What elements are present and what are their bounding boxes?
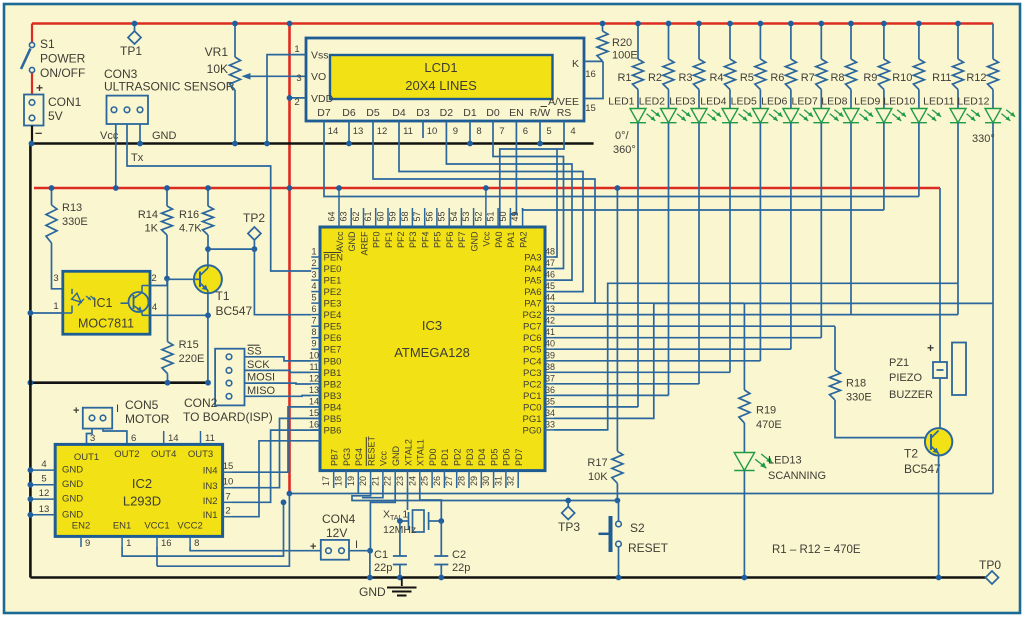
- testpoint TP2: [243, 211, 265, 252]
- svg-text:PC7: PC7: [523, 322, 541, 333]
- svg-text:VO: VO: [311, 71, 326, 83]
- svg-text:8: 8: [194, 538, 199, 549]
- resistor R11: [932, 21, 963, 90]
- wire GND bus middle: [28, 380, 209, 386]
- svg-text:PD2: PD2: [453, 448, 463, 466]
- LCD pin 8 D1: [463, 107, 481, 138]
- IC3 pin 4 PE2: [311, 281, 341, 298]
- svg-text:R2: R2: [648, 72, 662, 84]
- IC3 pin 38 PC3: [523, 362, 555, 379]
- transistor T1 BC547: [167, 265, 253, 318]
- svg-text:MISO: MISO: [247, 385, 276, 397]
- IC3 pin 7 PE5: [311, 316, 341, 333]
- IC3 pin 24 XTAL1: [407, 439, 425, 488]
- svg-text:14: 14: [168, 433, 179, 444]
- svg-text:R/W: R/W: [530, 107, 551, 119]
- LED LED5: [731, 90, 783, 123]
- svg-text:20X4 LINES: 20X4 LINES: [405, 78, 477, 93]
- svg-text:OUT4: OUT4: [151, 449, 176, 460]
- IC3 pin 55 PF6: [437, 208, 455, 248]
- wire LED3 cathode: [698, 123, 700, 384]
- svg-text:+: +: [927, 341, 934, 355]
- svg-text:5: 5: [546, 126, 551, 137]
- svg-text:51: 51: [486, 211, 496, 221]
- wire IN1 to PG3: [232, 441, 320, 517]
- svg-text:PA4: PA4: [524, 264, 541, 275]
- svg-text:BC547: BC547: [216, 304, 253, 318]
- svg-text:R10: R10: [892, 72, 912, 84]
- wire CON5 to IC2 OUT1: [87, 429, 93, 445]
- IC3 pin 57 PF4: [412, 208, 430, 248]
- svg-text:PE3: PE3: [324, 299, 342, 310]
- svg-text:PC0: PC0: [523, 402, 541, 413]
- svg-text:+: +: [73, 405, 79, 417]
- svg-text:Vcc: Vcc: [482, 231, 492, 247]
- svg-text:AVcc: AVcc: [335, 231, 345, 252]
- IC3 pin 44 PA7: [524, 293, 555, 310]
- svg-text:7: 7: [499, 126, 504, 137]
- svg-text:C2: C2: [452, 549, 466, 561]
- svg-text:LED8: LED8: [821, 96, 847, 108]
- IC3 pin 56 PF5: [424, 208, 442, 248]
- IC3 pin 14 PB4: [309, 396, 341, 413]
- svg-text:ATMEGA128: ATMEGA128: [394, 345, 470, 360]
- wire T2 emitter to GND: [936, 454, 942, 581]
- LED LED3: [669, 90, 721, 123]
- svg-text:2: 2: [311, 258, 316, 268]
- IC3 pin 39 PC4: [523, 350, 555, 367]
- IC3 pin 31 PD6: [493, 448, 511, 488]
- svg-text:PD7: PD7: [514, 448, 524, 466]
- svg-text:TO BOARD(ISP): TO BOARD(ISP): [183, 410, 273, 424]
- svg-text:5: 5: [41, 474, 46, 485]
- wire AVcc to rail: [336, 185, 342, 208]
- svg-text:R3: R3: [678, 72, 692, 84]
- wire LCD R/W to GND: [537, 138, 543, 146]
- svg-text:47: 47: [545, 258, 555, 268]
- svg-text:9: 9: [85, 538, 90, 549]
- svg-text:PC4: PC4: [523, 356, 541, 367]
- svg-text:D4: D4: [392, 107, 406, 119]
- svg-text:63: 63: [339, 211, 349, 221]
- wire LCD D4 to PA6: [399, 138, 583, 292]
- IC2 pin 13 GND: [28, 504, 84, 521]
- svg-text:1: 1: [53, 301, 58, 312]
- svg-text:PE0: PE0: [324, 264, 342, 275]
- IC3 pin 17 PB7: [321, 449, 339, 488]
- svg-text:1: 1: [311, 247, 316, 257]
- svg-text:R18: R18: [846, 378, 866, 390]
- svg-text:PG4: PG4: [354, 448, 364, 466]
- wire XTAL1 pin to crystal: [420, 488, 444, 524]
- wire VR1 wiper to LCD VO: [242, 73, 307, 80]
- node R1-R12 label: [772, 544, 861, 556]
- LCD pin 12 D5: [366, 107, 387, 138]
- svg-text:2: 2: [294, 97, 299, 108]
- LCD pin 16 K: [584, 61, 603, 80]
- svg-text:PB2: PB2: [324, 379, 342, 390]
- svg-text:56: 56: [424, 211, 434, 221]
- IC3 pin 19 PG4: [346, 448, 364, 488]
- svg-text:IN3: IN3: [203, 481, 218, 492]
- svg-text:BC547: BC547: [904, 462, 941, 476]
- svg-text:LCD1: LCD1: [424, 60, 457, 75]
- svg-text:D1: D1: [463, 107, 477, 119]
- svg-text:60: 60: [376, 211, 386, 221]
- wire CON3 GND: [137, 124, 143, 146]
- wire LCD D0 to PA4: [493, 138, 564, 269]
- svg-text:D6: D6: [342, 107, 356, 119]
- IC3 pin 35 PC0: [523, 396, 555, 413]
- svg-text:29: 29: [469, 476, 479, 486]
- resistor R10: [892, 21, 924, 90]
- svg-text:R1: R1: [617, 72, 631, 84]
- svg-text:R14: R14: [138, 209, 158, 221]
- svg-text:EN2: EN2: [72, 521, 90, 532]
- svg-text:PB7: PB7: [330, 449, 340, 466]
- testpoint TP3: [558, 498, 580, 534]
- LCD pin 13 D6: [342, 107, 363, 138]
- wire ISP MISO: [245, 385, 312, 397]
- svg-text:GND: GND: [62, 494, 83, 505]
- svg-text:21: 21: [370, 476, 380, 486]
- IC3 pin 33 PG0: [522, 419, 555, 436]
- wire RESET line: [352, 485, 619, 501]
- svg-text:LED7: LED7: [792, 96, 818, 108]
- svg-text:C1: C1: [374, 549, 388, 561]
- IC2 pin 5 GND: [28, 474, 84, 491]
- IC3 pin 54 PF7: [449, 208, 467, 248]
- svg-text:EN1: EN1: [113, 521, 131, 532]
- switch S2 reset: [599, 501, 669, 581]
- IC3 pin 21 Vcc: [370, 450, 388, 488]
- svg-text:33: 33: [545, 419, 555, 429]
- IC3 pin 52 Vcc: [473, 208, 491, 247]
- resistor R15: [162, 279, 204, 386]
- svg-text:OUT1: OUT1: [74, 452, 99, 463]
- svg-text:PG2: PG2: [522, 310, 541, 321]
- wire Vcc vertical drop: [288, 24, 291, 494]
- LCD pin 3 VO: [296, 73, 301, 84]
- LED LED12: [957, 90, 1015, 123]
- svg-text:D2: D2: [440, 107, 454, 119]
- svg-text:PA7: PA7: [524, 299, 541, 310]
- svg-text:2: 2: [151, 273, 156, 284]
- svg-text:44: 44: [545, 293, 555, 303]
- svg-text:37: 37: [545, 373, 555, 383]
- svg-text:PG0: PG0: [522, 425, 541, 436]
- svg-text:PB0: PB0: [324, 356, 342, 367]
- IC3 pin 12 PB2: [309, 373, 341, 390]
- svg-text:GND: GND: [359, 585, 386, 599]
- svg-text:LED9: LED9: [854, 96, 880, 108]
- svg-text:11: 11: [205, 433, 215, 444]
- svg-text:PF6: PF6: [445, 232, 455, 249]
- wire PC1 row 36 to LED2: [554, 394, 669, 396]
- svg-text:13: 13: [353, 126, 364, 137]
- svg-text:Vcc: Vcc: [379, 450, 389, 466]
- svg-text:4.7K: 4.7K: [179, 223, 202, 235]
- svg-text:41: 41: [545, 327, 555, 337]
- IC3 pin 60 PF1: [376, 208, 394, 248]
- capacitor C2: [434, 521, 470, 580]
- LCD pin 1 Vss: [264, 44, 306, 146]
- IC2 pin 15 IN4: [203, 461, 234, 477]
- LED LED6: [761, 90, 813, 123]
- resistor R3: [678, 21, 704, 90]
- svg-text:Vss: Vss: [311, 50, 329, 62]
- IC2 pin 14: [164, 431, 179, 444]
- connector CON3 ultrasonic sensor: [100, 67, 235, 142]
- IC3 pin 23 XTAL2: [395, 439, 413, 488]
- svg-text:61: 61: [363, 211, 373, 221]
- svg-text:330°: 330°: [972, 133, 995, 145]
- IC3 pin 48 PA3: [524, 247, 555, 264]
- svg-text:3: 3: [90, 433, 95, 444]
- svg-text:PB4: PB4: [324, 402, 342, 413]
- IC2 pin 8 VCC2: [177, 521, 202, 550]
- IC2 pin 16 VCC1: [144, 521, 171, 550]
- svg-text:MOSI: MOSI: [247, 372, 275, 384]
- wire PC3 row 38 to LED4: [554, 371, 730, 373]
- svg-text:34: 34: [545, 408, 555, 418]
- wire ISP MOSI: [245, 372, 312, 384]
- wire PC4 row 39 to LED5: [554, 360, 760, 362]
- wire LED11 link: [957, 283, 959, 314]
- svg-text:27: 27: [444, 476, 454, 486]
- svg-text:CON2: CON2: [184, 396, 218, 410]
- svg-text:IN2: IN2: [203, 496, 218, 507]
- svg-text:R20: R20: [612, 37, 632, 49]
- wire CON4 to GND: [349, 551, 373, 581]
- svg-text:IC3: IC3: [422, 318, 442, 333]
- svg-text:40: 40: [545, 339, 555, 349]
- microcontroller IC3 ATMEGA128: [320, 227, 545, 471]
- svg-text:R4: R4: [709, 72, 723, 84]
- svg-text:43: 43: [545, 304, 555, 314]
- wire GND pin22 to CON4 minus: [367, 485, 395, 554]
- svg-text:PF0: PF0: [372, 232, 382, 249]
- wire LED4 cathode: [729, 123, 731, 373]
- svg-text:R5: R5: [740, 72, 754, 84]
- IC3 pin 5 PE3: [311, 293, 341, 310]
- resistor R7: [801, 21, 827, 90]
- IC3 pin 58 PF3: [400, 208, 418, 248]
- IC3 pin 2 PE0: [311, 258, 341, 275]
- svg-text:9: 9: [453, 126, 458, 137]
- svg-text:1: 1: [294, 44, 299, 55]
- svg-text:LED13: LED13: [768, 455, 802, 467]
- svg-text:R8: R8: [830, 72, 844, 84]
- resistor R6: [770, 21, 796, 90]
- svg-text:6: 6: [131, 433, 136, 444]
- IC3 pin 45 PA6: [524, 281, 555, 298]
- svg-text:22p: 22p: [374, 562, 392, 574]
- svg-text:360°: 360°: [613, 144, 636, 156]
- svg-text:12: 12: [309, 373, 319, 383]
- svg-text:LED12: LED12: [957, 96, 989, 108]
- connector CON4 12V: [310, 512, 358, 560]
- wire PC6 row 41 to LED7: [554, 337, 821, 339]
- resistor R9: [863, 21, 889, 90]
- svg-text:12: 12: [377, 126, 388, 137]
- svg-text:36: 36: [545, 385, 555, 395]
- svg-text:CON1: CON1: [48, 95, 82, 109]
- svg-text:PE1: PE1: [324, 276, 342, 287]
- LED LED1: [608, 90, 660, 123]
- svg-text:50: 50: [498, 211, 508, 221]
- wire LED11 cathode: [957, 123, 959, 284]
- svg-text:GND: GND: [347, 231, 357, 252]
- wire EN1: [122, 499, 286, 556]
- svg-text:PA0: PA0: [494, 232, 504, 248]
- svg-text:LED6: LED6: [761, 96, 787, 108]
- LCD pin 5 RW: [530, 107, 552, 139]
- svg-text:I: I: [116, 403, 119, 415]
- wire IN3 to PB5: [232, 418, 320, 487]
- IC3 pin 43 PG2: [522, 304, 555, 321]
- resistor R8: [830, 21, 856, 90]
- svg-text:PEN: PEN: [324, 253, 344, 264]
- testpoint TP1: [120, 21, 142, 58]
- svg-text:R7: R7: [801, 72, 815, 84]
- wire PC0 row 35 to LED1: [554, 406, 638, 408]
- wire PA3 riser: [554, 149, 557, 257]
- IC3 pin 49 PA2: [510, 208, 528, 248]
- wire LED13 cathode to GND: [742, 471, 748, 581]
- svg-text:15: 15: [223, 461, 234, 472]
- svg-text:PF7: PF7: [457, 232, 467, 249]
- svg-text:31: 31: [493, 476, 503, 486]
- svg-text:TP1: TP1: [120, 44, 142, 58]
- svg-text:54: 54: [449, 211, 459, 221]
- wire LED2 cathode: [668, 123, 670, 396]
- wire VCC1: [156, 547, 158, 566]
- svg-text:4: 4: [311, 281, 316, 291]
- IC3 pin 22 GND: [383, 446, 401, 489]
- IC3 pin 6 PE4: [311, 304, 341, 321]
- IC3 pin 36 PC1: [523, 385, 555, 402]
- wire LCD RS to PA0: [500, 138, 564, 227]
- IC3 pin 3 PE1: [311, 270, 341, 287]
- LCD pin 14 D7: [317, 107, 338, 138]
- svg-text:LED5: LED5: [731, 96, 757, 108]
- wire PC7 row 42 to R18: [554, 325, 835, 327]
- svg-text:SS: SS: [247, 345, 262, 357]
- wire LCD D5 to PA7: [373, 138, 595, 303]
- svg-text:4: 4: [570, 126, 575, 137]
- IC3 pin 29 PD4: [469, 448, 487, 488]
- IC3 pin 59 PF2: [388, 208, 406, 248]
- wire Vcc top rail: [32, 22, 993, 25]
- wire LCD D1 to GND: [467, 138, 473, 146]
- svg-text:13: 13: [309, 385, 319, 395]
- svg-text:11: 11: [309, 362, 318, 372]
- svg-text:PA2: PA2: [518, 232, 528, 248]
- svg-text:PE7: PE7: [324, 345, 342, 356]
- LCD pin 9 D2: [440, 107, 458, 138]
- svg-text:K: K: [572, 58, 579, 70]
- LCD pin 4 RS: [557, 107, 576, 138]
- node 0/360 label: [613, 130, 636, 156]
- wire GND bus bottom: [30, 576, 986, 579]
- svg-text:10K: 10K: [588, 471, 608, 483]
- svg-text:SCANNING: SCANNING: [768, 470, 826, 482]
- IC2 pin 11: [201, 431, 215, 444]
- svg-text:PF1: PF1: [384, 232, 394, 249]
- svg-text:4: 4: [152, 302, 157, 313]
- wire IC1 pin1 to GND: [28, 310, 63, 316]
- svg-text:IN1: IN1: [203, 510, 218, 521]
- svg-text:330E: 330E: [846, 392, 872, 404]
- svg-text:15: 15: [585, 103, 596, 114]
- LED LED11: [923, 90, 980, 123]
- svg-text:GND: GND: [62, 465, 83, 476]
- resistor R1: [617, 21, 643, 90]
- wire T1 collector: [207, 249, 209, 268]
- svg-text:T2: T2: [904, 447, 918, 461]
- svg-text:55: 55: [437, 211, 447, 221]
- svg-text:PB3: PB3: [324, 391, 342, 402]
- IC3 pin 18 PG3: [334, 448, 352, 488]
- svg-text:S2: S2: [630, 521, 645, 535]
- svg-text:58: 58: [400, 211, 410, 221]
- wire rail to buzzer: [939, 188, 941, 362]
- svg-text:PC1: PC1: [523, 391, 541, 402]
- svg-text:R16: R16: [179, 209, 199, 221]
- svg-text:22: 22: [383, 476, 393, 486]
- IC2 pin 1 EN1: [113, 521, 132, 550]
- IC3 pin 42 PC7: [523, 316, 555, 333]
- svg-text:RESET: RESET: [628, 541, 669, 555]
- LED LED7: [792, 90, 844, 123]
- resistor R16: [179, 185, 214, 252]
- wire LED10 cathode: [918, 123, 920, 197]
- wire GND bus top: [33, 142, 594, 145]
- wire IC1 pin4 to T1 emitter: [142, 312, 211, 318]
- IC2 pin 4 GND: [28, 459, 84, 476]
- svg-text:PG3: PG3: [342, 448, 352, 466]
- svg-text:PB5: PB5: [324, 414, 342, 425]
- wire LED8 cathode: [850, 123, 852, 315]
- svg-text:20: 20: [358, 476, 368, 486]
- wire LCD D2 to PA5: [446, 138, 572, 280]
- svg-text:2: 2: [225, 506, 230, 517]
- svg-text:R17: R17: [587, 457, 607, 469]
- svg-text:GND: GND: [469, 231, 479, 252]
- switch S1: [21, 37, 86, 80]
- svg-text:32: 32: [506, 476, 516, 486]
- svg-text:PC5: PC5: [523, 345, 541, 356]
- svg-text:5: 5: [311, 293, 316, 303]
- svg-text:23: 23: [395, 476, 405, 486]
- svg-text:48: 48: [545, 247, 555, 257]
- motor driver IC2 L293D: [55, 444, 222, 536]
- IC3 pin 8 PE6: [311, 327, 341, 344]
- svg-text:PIEZO: PIEZO: [889, 372, 922, 384]
- connector CON1: [24, 81, 82, 146]
- svg-text:D7: D7: [317, 107, 331, 119]
- IC2 pin 2 IN1: [203, 506, 232, 522]
- LED LED2: [639, 90, 691, 123]
- svg-text:R12: R12: [966, 72, 986, 84]
- svg-text:SCK: SCK: [247, 359, 270, 371]
- svg-text:Tx: Tx: [131, 152, 144, 164]
- LED LED13 scanning: [734, 453, 826, 483]
- svg-text:R11: R11: [932, 72, 951, 84]
- svg-text:470E: 470E: [756, 419, 782, 431]
- svg-text:OUT3: OUT3: [188, 449, 213, 460]
